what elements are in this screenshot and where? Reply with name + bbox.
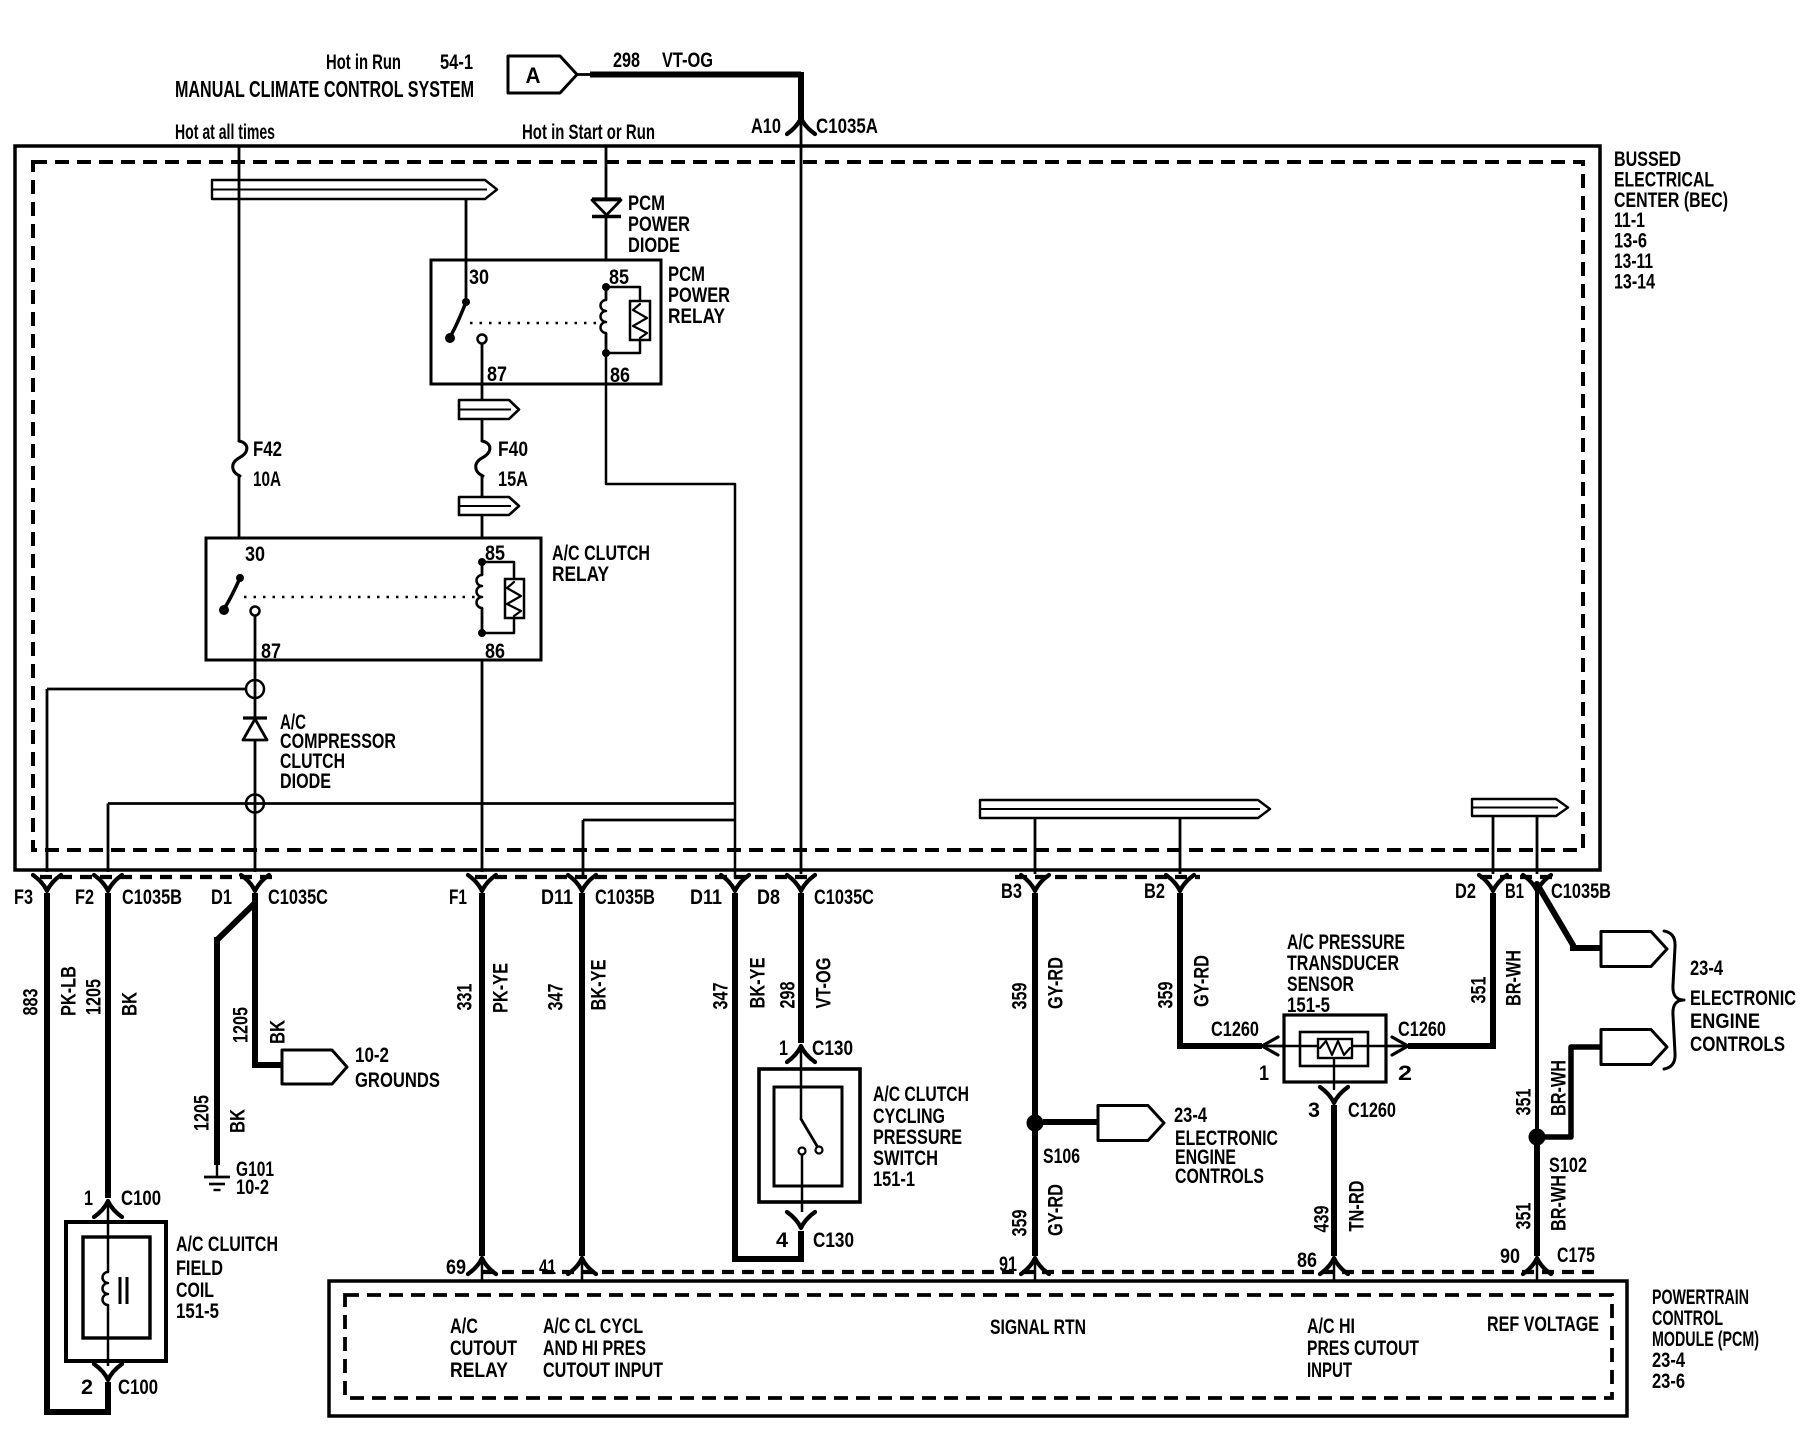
svg-text:41: 41 [539,1256,556,1279]
svg-text:A/C CLUTCH: A/C CLUTCH [873,1083,969,1106]
svg-text:F1: F1 [449,886,467,909]
svg-text:30: 30 [245,543,265,566]
svg-text:347: 347 [710,983,733,1010]
svg-text:PCM: PCM [668,263,705,286]
svg-text:87: 87 [261,640,281,663]
svg-text:TN-RD: TN-RD [1346,1181,1369,1232]
svg-text:A/C HI: A/C HI [1307,1315,1355,1338]
svg-text:PRESSURE: PRESSURE [873,1126,962,1149]
svg-text:D2: D2 [1455,880,1476,903]
svg-text:C175: C175 [1557,1244,1595,1267]
svg-text:C1035A: C1035A [816,115,878,138]
svg-text:BK: BK [119,992,142,1016]
svg-text:C130: C130 [813,1229,854,1252]
svg-text:Hot at all times: Hot at all times [175,121,275,144]
svg-text:POWER: POWER [628,213,690,236]
svg-text:90: 90 [1500,1245,1520,1268]
svg-text:GY-RD: GY-RD [1045,957,1068,1009]
svg-text:298: 298 [777,981,800,1008]
svg-text:2: 2 [1398,1062,1412,1085]
svg-text:85: 85 [609,266,629,289]
svg-text:PRES CUTOUT: PRES CUTOUT [1307,1337,1419,1360]
svg-text:30: 30 [469,266,489,289]
svg-text:4: 4 [776,1229,788,1252]
svg-text:A/C CL CYCL: A/C CL CYCL [543,1315,643,1338]
svg-text:CUTOUT: CUTOUT [450,1337,517,1360]
svg-text:CYCLING: CYCLING [873,1105,945,1128]
svg-text:C1260: C1260 [1348,1099,1396,1122]
svg-text:CONTROLS: CONTROLS [1175,1165,1264,1188]
svg-text:CONTROLS: CONTROLS [1690,1033,1785,1056]
svg-text:BR-WH: BR-WH [1503,950,1526,1006]
svg-text:13-14: 13-14 [1614,270,1655,293]
svg-text:331: 331 [454,983,477,1010]
svg-text:POWER: POWER [668,284,730,307]
svg-text:351: 351 [1513,1202,1536,1229]
svg-text:DIODE: DIODE [280,770,331,793]
svg-text:298: 298 [613,49,640,72]
svg-text:BK-YE: BK-YE [747,958,770,1009]
svg-text:23-4: 23-4 [1652,1349,1685,1372]
svg-text:439: 439 [1311,1206,1334,1233]
svg-text:CUTOUT INPUT: CUTOUT INPUT [543,1359,663,1382]
svg-text:COIL: COIL [176,1279,214,1302]
svg-text:10A: 10A [253,468,281,491]
svg-text:BK-YE: BK-YE [588,960,611,1011]
svg-text:BR-WH: BR-WH [1548,1060,1571,1116]
svg-text:F3: F3 [14,886,33,909]
svg-text:BR-WH: BR-WH [1548,1175,1571,1231]
svg-text:D11: D11 [690,886,722,909]
svg-text:23-4: 23-4 [1174,1104,1207,1127]
svg-text:C100: C100 [121,1187,161,1210]
svg-text:10-2: 10-2 [236,1176,269,1199]
svg-text:F40: F40 [498,438,528,461]
svg-text:MODULE (PCM): MODULE (PCM) [1652,1328,1759,1351]
svg-text:1: 1 [84,1187,93,1210]
svg-text:POWERTRAIN: POWERTRAIN [1652,1286,1749,1309]
svg-text:BK: BK [227,1109,250,1133]
svg-text:VT-OG: VT-OG [662,49,713,72]
svg-text:A10: A10 [751,115,781,138]
svg-text:54-1: 54-1 [440,51,473,74]
svg-text:1: 1 [1259,1062,1269,1085]
svg-text:883: 883 [20,989,43,1016]
svg-text:RELAY: RELAY [668,305,725,328]
svg-text:SWITCH: SWITCH [873,1147,938,1170]
svg-text:C1035B: C1035B [122,886,182,909]
svg-text:A/C CLUITCH: A/C CLUITCH [176,1233,278,1256]
svg-text:INPUT: INPUT [1307,1359,1352,1382]
svg-text:GROUNDS: GROUNDS [355,1069,440,1092]
svg-text:86: 86 [1297,1249,1317,1272]
svg-text:1205: 1205 [83,979,106,1015]
svg-text:AND HI PRES: AND HI PRES [543,1337,646,1360]
svg-text:ENGINE: ENGINE [1690,1010,1760,1033]
svg-text:15A: 15A [498,468,528,491]
svg-text:Hot in Run: Hot in Run [326,51,401,74]
svg-text:REF VOLTAGE: REF VOLTAGE [1487,1313,1599,1336]
svg-text:359: 359 [1009,1210,1032,1237]
svg-text:TRANSDUCER: TRANSDUCER [1287,952,1399,975]
svg-text:A/C PRESSURE: A/C PRESSURE [1287,931,1405,954]
svg-text:347: 347 [545,984,568,1011]
svg-text:DIODE: DIODE [628,234,680,257]
svg-text:S106: S106 [1043,1145,1080,1168]
svg-text:359: 359 [1009,983,1032,1010]
svg-text:GY-RD: GY-RD [1045,1184,1068,1236]
svg-text:3: 3 [1308,1099,1320,1122]
svg-text:151-1: 151-1 [873,1168,915,1191]
svg-text:PCM: PCM [628,192,665,215]
svg-text:VT-OG: VT-OG [813,958,836,1009]
svg-text:91: 91 [999,1253,1017,1276]
svg-text:B2: B2 [1144,880,1165,903]
svg-text:GY-RD: GY-RD [1191,955,1214,1007]
svg-text:A: A [526,63,541,88]
svg-text:F42: F42 [253,438,282,461]
svg-text:F2: F2 [75,886,94,909]
svg-text:FIELD: FIELD [176,1257,223,1280]
svg-text:CONTROL: CONTROL [1652,1307,1723,1330]
svg-text:C1035B: C1035B [1551,880,1611,903]
svg-text:23-4: 23-4 [1690,957,1723,980]
svg-text:A/C CLUTCH: A/C CLUTCH [552,542,650,565]
svg-text:S102: S102 [1549,1154,1587,1177]
svg-text:SENSOR: SENSOR [1287,973,1354,996]
svg-text:SIGNAL RTN: SIGNAL RTN [990,1316,1086,1339]
svg-text:D1: D1 [211,886,232,909]
svg-text:359: 359 [1155,982,1178,1009]
svg-text:C1260: C1260 [1211,1018,1259,1041]
svg-text:RELAY: RELAY [552,563,609,586]
svg-text:1205: 1205 [230,1007,253,1043]
svg-text:PK-YE: PK-YE [490,963,513,1013]
svg-text:C100: C100 [118,1376,158,1399]
svg-text:151-5: 151-5 [1287,994,1330,1017]
svg-text:86: 86 [610,364,630,387]
svg-text:1205: 1205 [191,1095,214,1131]
svg-text:C130: C130 [812,1037,853,1060]
svg-text:MANUAL CLIMATE CONTROL SYSTEM: MANUAL CLIMATE CONTROL SYSTEM [175,76,474,102]
svg-text:PK-LB: PK-LB [58,966,81,1016]
svg-text:C1260: C1260 [1398,1018,1446,1041]
svg-text:Hot in Start or Run: Hot in Start or Run [522,121,655,144]
svg-text:A/C: A/C [450,1315,478,1338]
svg-text:C1035C: C1035C [814,886,874,909]
svg-text:2: 2 [81,1376,93,1399]
svg-text:C1035B: C1035B [595,886,655,909]
svg-text:BK: BK [267,1020,290,1044]
svg-text:D8: D8 [757,886,780,909]
svg-text:87: 87 [487,363,507,386]
svg-text:23-6: 23-6 [1652,1370,1685,1393]
svg-text:C1035C: C1035C [268,886,328,909]
svg-text:B3: B3 [1001,880,1022,903]
svg-text:10-2: 10-2 [355,1044,389,1067]
svg-text:RELAY: RELAY [450,1359,508,1382]
svg-text:86: 86 [485,640,505,663]
svg-text:D11: D11 [541,886,573,909]
svg-text:1: 1 [779,1037,788,1060]
svg-text:B1: B1 [1505,880,1524,903]
svg-text:69: 69 [446,1256,466,1279]
svg-text:351: 351 [1468,976,1491,1003]
svg-text:351: 351 [1513,1088,1536,1115]
svg-text:151-5: 151-5 [176,1300,219,1323]
svg-text:ELECTRONIC: ELECTRONIC [1690,987,1796,1010]
